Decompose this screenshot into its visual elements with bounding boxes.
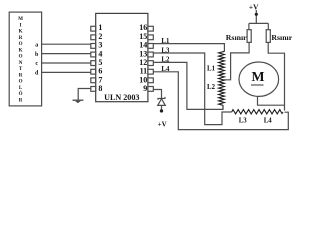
svg-text:T: T (19, 67, 23, 72)
svg-text:10: 10 (139, 75, 147, 84)
svg-text:13: 13 (139, 49, 147, 58)
svg-text:I: I (20, 23, 22, 28)
svg-text:9: 9 (143, 84, 147, 93)
svg-text:b: b (35, 52, 39, 58)
svg-text:L1: L1 (161, 38, 170, 45)
svg-text:K: K (19, 48, 23, 53)
svg-text:7: 7 (98, 75, 102, 84)
svg-text:L3: L3 (239, 117, 248, 124)
svg-text:K: K (19, 30, 23, 35)
svg-text:14: 14 (139, 41, 147, 50)
svg-text:6: 6 (98, 67, 102, 76)
svg-text:R: R (19, 73, 23, 78)
svg-text:L2: L2 (207, 84, 216, 91)
svg-text:Rsınır: Rsınır (226, 33, 247, 42)
svg-text:L: L (19, 86, 23, 91)
svg-text:15: 15 (139, 32, 147, 41)
svg-text:11: 11 (140, 67, 148, 76)
svg-text:M: M (18, 17, 23, 22)
svg-text:R: R (19, 98, 23, 103)
svg-text:L1: L1 (207, 66, 216, 73)
svg-text:O: O (19, 55, 23, 60)
svg-text:1: 1 (98, 23, 102, 32)
svg-text:16: 16 (139, 23, 147, 32)
svg-text:Rsınır: Rsınır (271, 33, 292, 42)
svg-text:+V: +V (158, 121, 167, 129)
svg-text:+V: +V (249, 2, 259, 11)
svg-text:O: O (19, 80, 23, 85)
svg-text:4: 4 (98, 49, 102, 58)
svg-text:ULN 2003: ULN 2003 (104, 93, 139, 102)
svg-text:12: 12 (139, 58, 147, 67)
svg-text:2: 2 (98, 32, 102, 41)
svg-text:a: a (35, 42, 38, 48)
svg-text:3: 3 (98, 41, 102, 50)
svg-text:c: c (35, 61, 38, 67)
svg-text:L2: L2 (161, 57, 170, 64)
svg-text:L3: L3 (161, 47, 170, 54)
svg-text:Ö: Ö (19, 91, 23, 97)
svg-text:8: 8 (98, 84, 102, 93)
svg-text:5: 5 (98, 58, 102, 67)
svg-text:M: M (251, 69, 264, 84)
svg-text:N: N (19, 61, 23, 66)
svg-text:L4: L4 (161, 66, 170, 73)
svg-text:L4: L4 (264, 117, 273, 124)
svg-text:R: R (19, 36, 23, 41)
svg-text:d: d (35, 71, 39, 77)
svg-text:O: O (19, 42, 23, 47)
